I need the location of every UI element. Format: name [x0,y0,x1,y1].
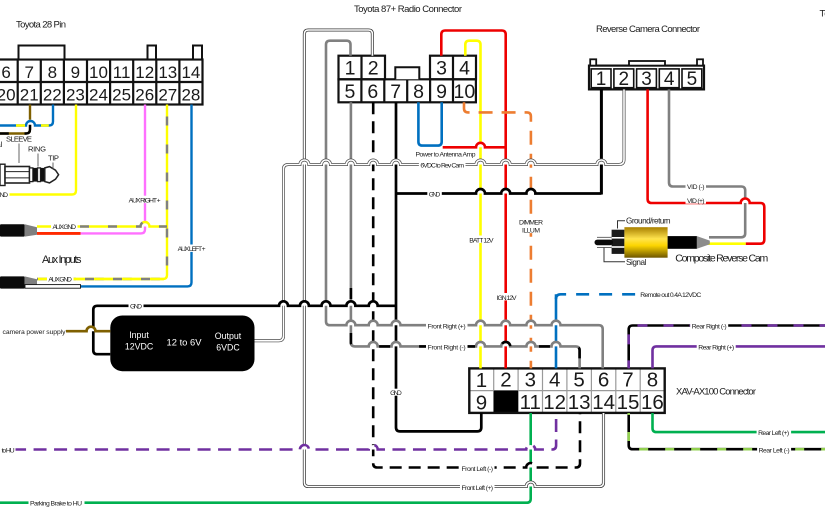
svg-text:AUX GND: AUX GND [53,224,77,231]
svg-text:8: 8 [647,368,658,391]
svg-text:10: 10 [89,63,108,82]
svg-text:16: 16 [641,391,664,414]
svg-text:12 to 6V: 12 to 6V [167,337,203,348]
connector J1 key tab large [19,46,65,60]
connector J4 pin numbers bottom row [476,391,664,415]
wire black GND branch to converter input [279,301,378,306]
label AUX LEFT + [176,245,208,252]
svg-text:3: 3 [436,57,447,79]
wire blue remote-out vertical to XAV pin4 [555,294,558,368]
svg-text:6: 6 [1,63,10,82]
svg-text:9: 9 [436,81,447,103]
svg-text:6VDC: 6VDC [216,343,240,353]
svg-text:Composite Reverse Cam: Composite Reverse Cam [675,253,768,265]
connector J3 pin numbers [596,69,697,90]
jack P1 3.5mm TRS plug [0,164,59,185]
svg-text:Reverse Camera Connector: Reverse Camera Connector [596,24,700,35]
svg-text:22: 22 [43,85,62,104]
svg-text:27: 27 [158,85,177,104]
svg-text:TIP: TIP [48,154,59,163]
connector J1 Toyota 28 Pin body [0,60,202,105]
composite plug P4 leader signal [604,248,625,262]
wire red aux right plug lead [37,232,81,235]
label VID minus [686,183,707,190]
svg-text:11: 11 [113,63,131,82]
svg-text:Toyota 28 Pin: Toyota 28 Pin [16,20,66,31]
svg-text:9: 9 [71,63,80,82]
label AUX GND lower [47,275,74,282]
wire white aux left plug lead [25,285,81,289]
svg-text:ILLUM: ILLUM [522,228,540,235]
connector J1 key tab small 1 [148,46,157,60]
wire blue antenna jumper radio pin8 to pin9 [418,102,441,145]
label Rear Right plus [697,343,736,350]
wire blue pin28 aux left plus [80,105,192,287]
RCA plug P3 aux input left [0,276,25,288]
svg-text:Ground/return: Ground/return [626,217,671,226]
connector J2 key tab [395,67,419,79]
svg-text:6: 6 [367,81,378,103]
svg-text:2: 2 [619,69,630,90]
svg-text:23: 23 [66,85,85,104]
svg-text:14: 14 [592,391,615,414]
svg-text:Rear Right (-): Rear Right (-) [692,324,727,331]
svg-text:26: 26 [135,85,154,104]
svg-text:7: 7 [622,368,633,391]
label DIMMER ILLUM [518,218,545,234]
svg-text:Rear Left (+): Rear Left (+) [758,430,789,437]
svg-text:12: 12 [543,391,566,414]
svg-text:XAV-AX100 Connector: XAV-AX100 Connector [676,386,756,397]
svg-text:10: 10 [454,81,476,103]
svg-text:13: 13 [568,391,591,414]
svg-text:VID (-): VID (-) [687,184,705,191]
label Parking Brake to HU [29,499,85,506]
connector J3 key tab center [629,61,665,66]
wire white front left plus radio pin2 to XAV pin14 [304,30,603,487]
wire red antenna feed from IGN line to pin9 [476,143,485,148]
label AUX GND upper [51,223,78,230]
composite plug P4 gray boot [697,236,710,249]
connector J4 pin numbers top row [476,368,658,392]
wire gray front right minus radio pin5 to XAV pin5 [369,342,561,347]
svg-text:14: 14 [181,63,200,82]
svg-text:Output: Output [215,331,242,341]
wire yellow-gray pin27 aux ground bus [37,105,167,280]
label AUX RIGHT + [127,196,163,203]
label Rear Left minus [757,446,791,453]
label GND on radio pin7 drop [389,389,404,396]
svg-text:Remote out 0.4A 12VDC: Remote out 0.4A 12VDC [640,292,701,299]
wire green XAV pin16 rear left plus [653,413,825,432]
svg-text:6VDC to Rev Cam: 6VDC to Rev Cam [420,163,464,170]
svg-text:11: 11 [520,391,541,414]
svg-text:al: al [0,140,3,149]
connector J1 key tab small 2 [193,46,202,60]
label Front Right minus [426,343,468,350]
connector J4 blocked pin 10 cell [494,391,518,413]
wire yellow composite plug signal pigtail [700,242,746,245]
svg-text:Rear Right (+): Rear Right (+) [698,345,734,352]
wire gray VID- reverse camera pin4 to composite plug [669,89,745,237]
svg-text:15: 15 [617,391,640,414]
wire black reverse camera pin1 ground drop [600,89,603,194]
connector J1 pin numbers top row [1,63,200,82]
svg-text:Front Right (-): Front Right (-) [428,345,466,352]
connector J2 pin numbers [344,57,475,103]
label GND camera line [427,190,442,197]
svg-text:5: 5 [573,368,584,391]
label GND converter branch [129,302,144,309]
wire yellow BATT pin4 radio to XAV pin1 [465,41,480,369]
RCA plug P2 aux input right [0,224,25,236]
converter U1 12V-to-6V box [110,316,254,372]
svg-text:Front Left (+): Front Left (+) [462,485,494,492]
svg-text:Parking Brake to HU: Parking Brake to HU [30,501,82,508]
svg-text:12VDC: 12VDC [125,342,154,352]
composite plug P4 leader ground/return [618,221,626,229]
wire red VID+ reverse camera pin3 [741,199,750,204]
wire black dashed front left minus radio pin6 to XAV pin13 [526,463,535,467]
label 6VDC to Rev Cam [419,161,466,168]
svg-text:Aux Inputs: Aux Inputs [42,254,82,266]
svg-text:1: 1 [596,69,607,90]
wire olive camera power supply stub [87,327,96,332]
label Rear Right minus [690,322,728,329]
svg-text:GND: GND [0,192,8,199]
label GND on pin23 wire [0,191,10,198]
label Rear Left plus [757,428,792,435]
svg-text:7: 7 [24,63,33,82]
connector J4 XAV-AX100 connector body [469,368,664,413]
wire black-purple XAV pin7 rear right minus [629,326,825,369]
svg-text:camera power supply: camera power supply [3,329,67,336]
label Front Left plus [460,483,495,490]
svg-text:8: 8 [48,63,57,82]
svg-text:Rear Left (-): Rear Left (-) [759,447,790,454]
wire black GND radio pin7 to reverse camera pin1 [476,189,535,194]
connector J2 Toyota 87+ radio connector body [339,56,477,103]
svg-text:To: To [820,9,825,20]
svg-text:5: 5 [344,81,355,103]
composite plug P4 ring stack [612,230,625,254]
wire blue dashed remote-out stub [556,294,637,299]
svg-text:1: 1 [476,369,487,392]
svg-text:Front Left (-): Front Left (-) [462,466,494,473]
svg-text:RING: RING [28,145,46,154]
wire red IGN pin3 radio to XAV pin2 [441,31,505,369]
wire orange dashed dimmer pin10 radio to XAV pin3 [464,102,531,368]
svg-text:SLEEVE: SLEEVE [6,135,32,144]
connector J3 key tab right [697,59,703,65]
svg-text:3: 3 [641,69,652,90]
wire olive pin21 with black stripes [0,105,30,134]
svg-text:25: 25 [112,85,131,104]
connector J3 key tab left [590,59,596,65]
svg-text:to HU: to HU [2,448,15,455]
svg-text:Front Right (+): Front Right (+) [428,323,466,330]
converter U1 texts [125,330,242,353]
svg-text:6: 6 [598,368,609,391]
wire gray front right plus radio pin1 to XAV pin6 [346,321,560,326]
wire blue pin22 with yellow stripes [28,120,33,125]
wire pink pin26 aux right plus [80,105,145,234]
label IGN 12V [495,293,518,300]
label to HU [0,446,16,453]
jack P1 leader lines [19,144,53,170]
svg-text:AUX LEFT +: AUX LEFT + [178,246,206,253]
label Front Right plus [426,322,468,329]
wire purple XAV pin8 rear right plus [653,346,825,368]
svg-text:21: 21 [20,85,39,104]
connector J3 reverse camera connector body [589,66,704,90]
svg-text:Power to Antenna Amp: Power to Antenna Amp [416,151,476,158]
svg-text:VID (+): VID (+) [687,198,705,205]
svg-text:7: 7 [390,81,401,103]
label VID plus [686,197,707,204]
svg-text:DIMMER: DIMMER [519,220,543,227]
svg-text:3: 3 [525,368,536,391]
svg-text:5: 5 [687,69,698,90]
svg-text:28: 28 [181,85,200,104]
connector J3 pin cells [591,69,702,88]
connector J1 pin numbers bottom row [0,85,200,104]
composite plug P4 yellow body [624,227,667,258]
svg-text:24: 24 [89,85,108,104]
wire yellow-gray aux ground lower lead [37,278,164,280]
svg-text:1: 1 [345,57,356,79]
svg-text:20: 20 [0,85,16,104]
label BATT 12V [468,236,496,243]
composite plug P4 black barrel [668,236,697,249]
svg-text:8: 8 [413,81,424,103]
svg-text:13: 13 [158,63,177,82]
label Front Left minus [460,464,495,471]
svg-text:2: 2 [500,368,511,391]
svg-text:GND: GND [390,390,402,397]
wire purple dashed XAV pin12 to HU [300,445,535,449]
svg-text:4: 4 [459,57,470,79]
svg-text:9: 9 [476,392,487,415]
svg-text:BATT 12V: BATT 12V [469,238,494,245]
composite plug P4 center pin [595,240,614,246]
svg-text:GND: GND [130,304,142,311]
svg-text:Signal: Signal [626,258,647,267]
svg-text:4: 4 [549,368,560,391]
wire green parking brake XAV pin11 to HU [0,413,531,503]
svg-text:Toyota 87+ Radio Connector: Toyota 87+ Radio Connector [354,4,462,15]
svg-text:AUX RIGHT +: AUX RIGHT + [129,197,161,204]
svg-text:4: 4 [664,69,675,90]
svg-text:12: 12 [135,63,154,82]
wire white 6VDC converter output to reverse camera pin2 [300,160,606,165]
wire black GND radio pin7 down and over to XAV pin9 [396,102,481,431]
svg-text:2: 2 [368,57,379,79]
svg-text:GND: GND [429,192,441,199]
svg-text:AUX GND: AUX GND [48,277,72,284]
wire yellow-gray aux ground upper lead [141,222,150,226]
wire yellow pin23 ground to left edge [0,105,76,195]
svg-text:IGN 12V: IGN 12V [497,295,517,302]
svg-text:Input: Input [129,330,149,340]
wire black-green XAV pin15 rear left minus [629,413,825,449]
